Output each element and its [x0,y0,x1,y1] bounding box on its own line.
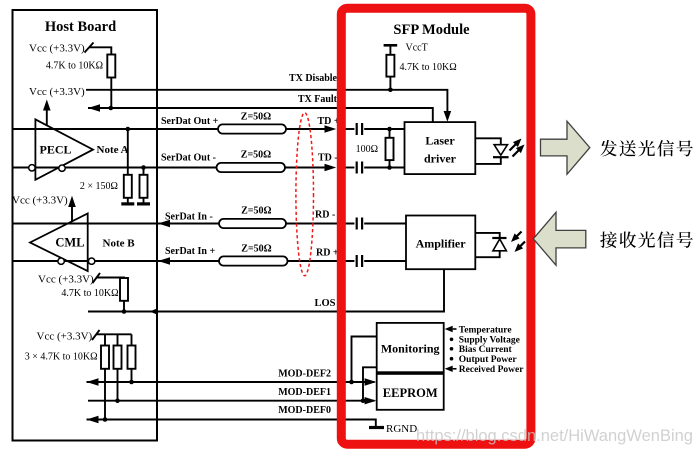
transmission line Z1 [218,124,286,133]
inversion bubble PECL input [29,165,35,171]
svg-text:driver: driver [424,152,457,166]
svg-text:PECL: PECL [39,143,71,157]
svg-text:TX Fault: TX Fault [298,94,338,105]
svg-text:SerDat In -: SerDat In - [165,212,213,223]
svg-text:Z=50Ω: Z=50Ω [241,149,271,160]
svg-text:Vcc (+3.3V): Vcc (+3.3V) [12,195,68,207]
svg-text:SerDat Out -: SerDat Out - [161,152,216,163]
svg-text:SFP Module: SFP Module [393,22,470,38]
svg-text:Bias Current: Bias Current [459,345,513,355]
Host Board box [13,10,158,441]
monitoring list arrow Received Power [445,366,453,372]
text receive optical signal (CJK paths) [600,231,693,248]
SFP Module red frame [341,8,531,444]
wire SerDat Out - / TD - [13,167,333,169]
wire SerDat In - / RD - [13,223,354,225]
resistor R1 4.7K-10K pullup (TX Fault) [107,55,115,78]
big arrow receive (left) [533,212,586,265]
svg-text:TX Disable: TX Disable [289,73,338,84]
svg-text:Vcc (+3.3V): Vcc (+3.3V) [38,274,94,286]
svg-text:SerDat Out +: SerDat Out + [161,116,219,127]
svg-text:Supply Voltage: Supply Voltage [459,336,520,346]
svg-text:SerDat In +: SerDat In + [165,246,215,257]
svg-text:Received Power: Received Power [459,365,524,375]
svg-text:MOD-DEF1: MOD-DEF1 [278,387,331,398]
red dashed ellipse highlight [296,113,314,276]
bullet Bias Current [450,347,454,351]
wire MOD-DEF1 [88,400,375,402]
wire MOD-DEF2 [87,381,375,383]
resistor R3 150 ohm [143,168,145,175]
wire TX Disable [86,90,447,115]
svg-text:https://blog.csdn.net/HiWangWe: https://blog.csdn.net/HiWangWenBing [416,427,693,445]
wire MOD-DEF0 [87,420,376,427]
op-amp U2 CML buffer triangle [30,214,88,272]
capacitor C2 (TD-) [356,162,358,174]
svg-text:Temperature: Temperature [459,325,512,335]
transmission line Z2 [217,163,286,172]
svg-text:Z=50Ω: Z=50Ω [241,112,271,123]
svg-text:Z=50Ω: Z=50Ω [241,206,271,217]
svg-text:Z=50Ω: Z=50Ω [241,244,271,255]
monitoring box U5 [377,323,444,372]
resistor R4 4.7K-10K (LOS) [120,278,128,301]
svg-text:Amplifier: Amplifier [416,237,467,251]
transmission line Z3 [219,219,286,228]
svg-text:RD +: RD + [316,248,339,259]
svg-text:100Ω: 100Ω [356,144,378,155]
resistor R6 [117,334,119,345]
svg-text:RGND: RGND [386,423,417,435]
monitoring list arrow Temperature [445,326,453,332]
capacitor C3 (RD-) [356,218,358,230]
laser driver box U3 [405,122,476,174]
light emission arrows [510,144,517,151]
resistor R7 [131,334,133,345]
resistor R2 150 ohm [127,129,129,175]
svg-text:4.7K to 10KΩ: 4.7K to 10KΩ [61,288,118,299]
svg-text:4.7K to 10KΩ: 4.7K to 10KΩ [46,61,103,72]
capacitor C1 (TD+) [356,123,358,135]
resistor R5 [104,334,106,345]
inversion bubble CML input [88,258,94,264]
laser diode D1 [475,138,501,144]
bullet Supply Voltage [450,338,454,342]
svg-text:3 × 4.7K to 10KΩ: 3 × 4.7K to 10KΩ [25,351,98,362]
svg-text:Note B: Note B [103,238,136,250]
resistor R8 VccT pullup [386,55,394,77]
inversion bubble PECL output [59,165,65,171]
photodiode D2 [475,233,499,238]
svg-text:4.7K to 10KΩ: 4.7K to 10KΩ [400,62,457,73]
ground RGND bar [369,426,384,429]
svg-text:Output Power: Output Power [459,355,518,365]
svg-text:MOD-DEF0: MOD-DEF0 [278,405,331,416]
svg-text:Vcc (+3.3V): Vcc (+3.3V) [29,86,85,98]
bullet Output Power [450,357,454,361]
svg-text:Laser: Laser [425,134,455,148]
light input arrows [516,232,522,238]
wire SerDat Out + / TD + [13,128,333,130]
svg-text:CML: CML [55,236,84,250]
transmission line Z4 [219,256,288,265]
svg-text:TD +: TD + [318,116,340,127]
wire LOS [88,269,444,311]
svg-text:2 × 150Ω: 2 × 150Ω [80,181,118,192]
svg-text:EEPROM: EEPROM [383,386,438,400]
inversion bubble CML output [58,258,64,264]
svg-text:Note A: Note A [97,144,129,156]
svg-text:Host Board: Host Board [45,19,116,35]
svg-text:LOS: LOS [314,298,335,309]
svg-text:Vcc (+3.3V): Vcc (+3.3V) [29,43,85,55]
wire SerDat In + / RD + [13,260,354,262]
wire TX Fault [88,108,433,122]
svg-text:MOD-DEF2: MOD-DEF2 [278,369,331,380]
op-amp U1 PECL buffer triangle [35,119,93,179]
svg-text:Monitoring: Monitoring [381,342,440,356]
svg-text:VccT: VccT [406,42,428,53]
resistor R9 100 ohm [389,129,391,138]
svg-text:RD -: RD - [315,209,335,220]
text send optical signal (CJK paths) [600,140,693,157]
capacitor C4 (RD+) [356,255,358,267]
svg-text:TD -: TD - [318,152,338,163]
power VccT bar [384,44,398,47]
amplifier box U4 [406,216,475,270]
EEPROM box U6 [377,374,444,410]
power arrow Vcc to PECL [46,105,48,126]
svg-text:Vcc (+3.3V): Vcc (+3.3V) [37,331,93,343]
big arrow send (right) [541,121,590,174]
